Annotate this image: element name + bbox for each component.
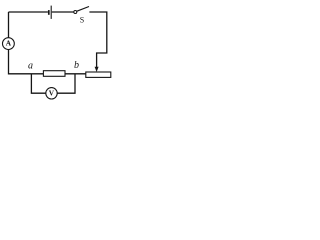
- wire top-left horizontal: [9, 11, 48, 13]
- wire left vertical top: [8, 12, 10, 38]
- svg-text:A: A: [6, 39, 12, 48]
- svg-text:b: b: [74, 60, 79, 71]
- wire battery to switch: [52, 11, 74, 13]
- voltmeter V1 circle: [46, 88, 57, 99]
- wire left vertical bottom to node a and resistor: [9, 50, 44, 74]
- battery cell BT1 short plate: [48, 10, 50, 15]
- wire node a branch down to voltmeter: [31, 74, 45, 93]
- svg-text:V: V: [49, 89, 55, 98]
- svg-text:a: a: [28, 60, 33, 71]
- ammeter A1 circle: [2, 38, 14, 50]
- rheostat RP1 body: [86, 72, 111, 77]
- svg-text:S: S: [80, 15, 84, 24]
- wire switch to top-right corner down to jog: [89, 12, 106, 68]
- battery cell BT1 long plate: [50, 6, 52, 19]
- resistor R1 body: [43, 71, 65, 77]
- switch S lever: [77, 7, 89, 12]
- wire voltmeter to node b riser: [57, 74, 75, 93]
- switch S pivot circle: [74, 11, 77, 14]
- rheostat wiper arrow head: [95, 67, 99, 72]
- wire resistor to rheostat through node b: [65, 73, 86, 75]
